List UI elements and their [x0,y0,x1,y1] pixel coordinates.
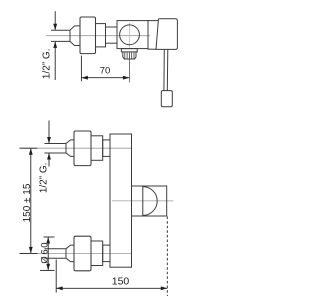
upper taper cone [66,140,74,157]
extension line left [55,260,57,293]
handle arc [143,187,157,216]
ledge line bottom [148,48,157,50]
centerline middle [112,200,174,202]
centerline lower inlet [20,252,132,254]
svg-text:Ø60: Ø60 [40,241,51,264]
arrow up [53,41,57,48]
upper flange [74,131,91,166]
outlet lip [121,49,137,52]
flange [80,17,96,54]
svg-text:1/2” G.: 1/2” G. [39,163,50,194]
taper cone [70,26,80,46]
mixer body column [110,134,132,267]
centerline vertical outlet axis [128,23,130,49]
arrow down [53,24,57,31]
extension line from flange corner [80,56,82,82]
dimension 150 ± 15 [20,148,38,253]
pipe (inlet nipple, top view) [51,29,70,31]
lower flange [74,236,91,271]
arrow left [56,286,63,290]
svg-text:150: 150 [112,275,130,287]
svg-text:70: 70 [100,65,111,76]
union nut [96,24,106,47]
dimension line 150 [56,287,167,289]
upper step [103,140,110,157]
upper union nut [91,136,103,161]
arrow right [123,76,129,80]
arrow up [47,153,51,160]
lever knob [161,91,172,107]
arrow down [47,137,51,144]
arrow down [46,264,50,271]
extension line right dashed [166,217,168,297]
handle block front view [132,186,167,216]
lower pipe [45,248,67,250]
centerline upper inlet [20,147,132,149]
arrow up [29,148,33,155]
outlet threaded nut [123,52,136,59]
centerline horizontal top view [46,35,150,37]
dimension 70 [81,56,129,82]
handle chord line [142,186,144,216]
thread hatching [125,52,134,59]
extension line outlet axis [128,59,130,82]
cartridge circle [120,25,140,45]
lower step [103,245,110,262]
svg-text:1/2” G.: 1/2” G. [41,49,52,80]
dimension Ø60 [40,237,55,270]
arrow down [29,247,33,254]
dimension 1/2" G. (front view) [48,121,50,167]
lever rod [163,49,165,90]
mixer body top view [117,21,148,49]
arrow right [161,286,168,290]
svg-text:150 ± 15: 150 ± 15 [22,183,33,222]
upper pipe [45,143,67,145]
lower taper cone [66,245,74,262]
neck [106,27,118,43]
handle base [156,19,177,50]
lower union nut [91,241,103,266]
arrow left [81,76,88,80]
dimension line 70 [81,77,129,79]
dimension 1/2" G. (top view) [54,11,56,80]
arrow up [46,237,50,244]
dimension 150 (bottom) [56,217,167,297]
ledge line top [148,20,158,22]
